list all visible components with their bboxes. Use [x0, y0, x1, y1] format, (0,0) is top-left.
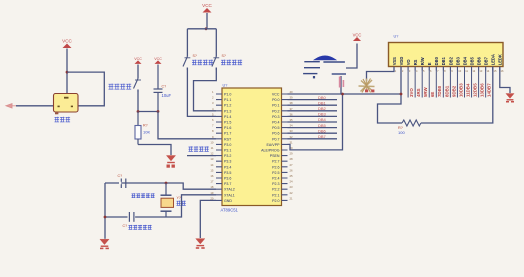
svg-text:23: 23 [290, 185, 294, 189]
svg-text:EA/VPP: EA/VPP [267, 143, 281, 147]
svg-text:LEDK: LEDK [498, 54, 503, 65]
svg-text:DB7: DB7 [484, 56, 489, 65]
svg-text:VDD: VDD [399, 57, 404, 66]
svg-text:10: 10 [458, 69, 461, 73]
svg-text:7: 7 [212, 124, 214, 128]
svg-text:VSS: VSS [392, 57, 397, 65]
svg-text:LEDA: LEDA [491, 54, 496, 65]
ground (backlight) [506, 94, 514, 100]
svg-text:17: 17 [210, 180, 214, 184]
svg-text:E: E [427, 62, 432, 65]
svg-text:10K: 10K [143, 130, 150, 135]
svg-text:VCC: VCC [134, 57, 142, 61]
svg-text:AT89C51: AT89C51 [221, 208, 239, 213]
svg-text:DB1: DB1 [318, 100, 327, 105]
svg-text:DB5: DB5 [318, 123, 327, 128]
svg-text:XTAL2: XTAL2 [224, 188, 235, 192]
svg-text:C?: C? [118, 174, 123, 178]
svg-text:GND: GND [224, 199, 232, 203]
svg-text:P2.6: P2.6 [272, 165, 279, 169]
svg-text:14: 14 [486, 69, 489, 73]
VCC symbol (reset cap) [154, 57, 162, 64]
svg-text:RST: RST [224, 137, 232, 141]
svg-text:21: 21 [290, 196, 294, 200]
VCC symbol (buzzer) [62, 39, 72, 48]
svg-text:9: 9 [451, 69, 453, 73]
svg-text:DB2: DB2 [318, 106, 327, 111]
junction [104, 216, 107, 219]
svg-text:7DB0: 7DB0 [437, 85, 442, 97]
wire [206, 13, 208, 29]
svg-text:5: 5 [423, 69, 425, 73]
resistor R1 [135, 112, 141, 145]
svg-text:P1.2: P1.2 [224, 104, 231, 108]
svg-text:P1.6: P1.6 [224, 126, 231, 130]
svg-text:P0.2: P0.2 [272, 109, 279, 113]
wire [16, 105, 53, 107]
svg-text:DB3: DB3 [318, 112, 327, 117]
MCU U2 89C51 [222, 88, 282, 206]
svg-text:VCC: VCC [353, 32, 362, 37]
svg-text:P1.3: P1.3 [224, 109, 231, 113]
svg-text:8: 8 [212, 129, 214, 133]
crystal Y1 [161, 183, 174, 217]
svg-text:29: 29 [290, 152, 294, 156]
wire gnd pin [200, 200, 216, 238]
wire P3.2 net [187, 155, 216, 157]
pink marks [339, 77, 344, 88]
svg-text:DB5: DB5 [469, 56, 474, 65]
port P1 (left arrow) [6, 104, 17, 108]
wire gnd left [104, 183, 106, 239]
label 复位开关 [109, 84, 132, 90]
switch S1 reset [134, 79, 142, 93]
svg-text:P2.2: P2.2 [272, 188, 279, 192]
VCC symbol (switches) [202, 3, 212, 12]
junction [400, 93, 403, 96]
svg-text:6: 6 [430, 69, 432, 73]
svg-text:P0.6: P0.6 [272, 132, 279, 136]
svg-text:1: 1 [212, 90, 214, 94]
svg-text:P3.6: P3.6 [224, 177, 231, 181]
junction [157, 110, 160, 113]
svg-text:P1.5: P1.5 [224, 121, 231, 125]
svg-text:9DB2: 9DB2 [451, 85, 456, 97]
svg-text:15: 15 [210, 168, 214, 172]
svg-text:P3.0: P3.0 [224, 143, 231, 147]
svg-text:16: 16 [501, 69, 504, 73]
svg-text:P2.7: P2.7 [272, 160, 279, 164]
wire S2 to P1.4 [187, 68, 216, 117]
svg-text:14: 14 [210, 163, 214, 167]
svg-text:27: 27 [290, 163, 294, 167]
svg-text:P3.2: P3.2 [224, 154, 231, 158]
svg-text:P2.3: P2.3 [272, 182, 279, 186]
chip pin stubs [216, 94, 288, 200]
svg-text:25: 25 [290, 174, 294, 178]
svg-text:10uF: 10uF [162, 93, 172, 98]
switch S3 [212, 57, 219, 71]
svg-text:U?: U? [394, 35, 399, 39]
wire EA loop [288, 94, 343, 150]
LCD U3 [389, 43, 504, 67]
svg-text:16: 16 [210, 174, 214, 178]
wire loop right [67, 72, 104, 106]
svg-text:4RS: 4RS [416, 88, 421, 97]
svg-text:6: 6 [212, 118, 214, 122]
label net [189, 146, 209, 151]
wire [187, 28, 216, 30]
svg-text:P0.1: P0.1 [272, 104, 279, 108]
ground (reset) [166, 156, 175, 163]
wire button to rail [340, 76, 342, 94]
svg-text:11DB4: 11DB4 [465, 83, 470, 97]
button dome [315, 56, 336, 60]
svg-text:VO: VO [406, 59, 411, 66]
svg-text:2: 2 [402, 69, 404, 73]
wire to gnd [138, 145, 171, 156]
VCC symbol (reset switch) [134, 57, 142, 64]
svg-text:P3.1: P3.1 [224, 149, 231, 153]
svg-text:1: 1 [395, 69, 397, 73]
svg-text:P1.0: P1.0 [224, 93, 231, 97]
wire xtal1 [166, 195, 216, 217]
svg-text:P3.3: P3.3 [224, 160, 231, 164]
svg-text:S?: S? [222, 54, 226, 58]
wire [215, 29, 217, 57]
LCD net wires [408, 67, 486, 98]
capacitor C2 [121, 179, 126, 189]
svg-text:12DB5: 12DB5 [472, 83, 477, 97]
svg-text:22: 22 [290, 191, 294, 195]
buzzer U1 [54, 94, 79, 113]
svg-text:DB0: DB0 [434, 56, 439, 65]
junction [341, 93, 344, 96]
svg-text:4: 4 [416, 69, 418, 73]
svg-text:P2.1: P2.1 [272, 193, 279, 197]
wire RST [158, 112, 216, 139]
svg-text:3: 3 [409, 69, 411, 73]
button terminals [303, 62, 346, 74]
label 蜂鸣器 [55, 117, 71, 122]
capacitor C3 [128, 212, 136, 222]
earth ground [359, 79, 375, 93]
wire VCC rail [288, 93, 402, 95]
svg-text:RS: RS [413, 59, 418, 65]
svg-text:ALE/PROG: ALE/PROG [261, 149, 280, 153]
P0 bus wires with net labels DB0-DB7 [288, 99, 338, 101]
svg-text:U?: U? [223, 84, 228, 88]
svg-text:PSEN: PSEN [270, 154, 280, 158]
svg-text:XTAL1: XTAL1 [224, 193, 235, 197]
junction [165, 182, 168, 185]
svg-text:P3.7: P3.7 [224, 182, 231, 186]
wire [137, 65, 139, 79]
resistor R2 zigzag [402, 120, 421, 126]
svg-text:24: 24 [290, 180, 294, 184]
svg-text:DB7: DB7 [318, 134, 327, 139]
wire to LEDA [421, 67, 493, 124]
svg-text:P3.4: P3.4 [224, 165, 231, 169]
svg-text:10DB3: 10DB3 [458, 83, 463, 97]
svg-text:8: 8 [444, 69, 446, 73]
svg-text:11: 11 [465, 69, 468, 73]
svg-text:P1.7: P1.7 [224, 132, 231, 136]
svg-text:13: 13 [479, 69, 482, 73]
wire VDD loop [378, 67, 403, 124]
wire [186, 29, 188, 57]
wire LEDK [500, 67, 510, 94]
switch S2 [183, 57, 190, 71]
svg-text:5RW: 5RW [423, 86, 428, 97]
svg-text:P0.7: P0.7 [272, 137, 279, 141]
LCD pin stubs [394, 67, 500, 71]
svg-text:11: 11 [211, 146, 214, 150]
svg-text:100: 100 [398, 130, 405, 135]
wire [346, 44, 357, 69]
wire VCC to buzzer top [66, 49, 68, 94]
svg-text:P3.5: P3.5 [224, 171, 231, 175]
wire S3 to P1.3 [194, 68, 217, 111]
wire xtal top rail [105, 183, 216, 189]
svg-text:13: 13 [210, 157, 214, 161]
svg-text:8DB1: 8DB1 [444, 85, 449, 97]
wire reset node [138, 111, 158, 113]
junction [205, 27, 208, 30]
svg-text:P1.4: P1.4 [224, 115, 231, 119]
wire VSS [367, 67, 395, 82]
svg-text:DB3: DB3 [455, 56, 460, 65]
svg-text:P0.3: P0.3 [272, 115, 279, 119]
svg-text:10: 10 [210, 140, 214, 144]
svg-text:S?: S? [193, 54, 197, 58]
svg-text:14DB7: 14DB7 [487, 83, 492, 97]
svg-text:26: 26 [290, 168, 294, 172]
svg-text:P0.4: P0.4 [272, 121, 279, 125]
svg-text:7: 7 [437, 69, 439, 73]
svg-text:2: 2 [212, 96, 214, 100]
svg-text:12: 12 [472, 69, 475, 73]
svg-text:3VO: 3VO [409, 88, 414, 97]
svg-text:C?: C? [123, 224, 128, 228]
svg-text:28: 28 [290, 157, 294, 161]
svg-text:DB4: DB4 [462, 56, 467, 65]
ground (MCU) [196, 239, 205, 246]
svg-text:VCC: VCC [62, 39, 72, 44]
svg-text:P2.5: P2.5 [272, 171, 279, 175]
svg-text:6E: 6E [430, 92, 435, 97]
svg-text:15: 15 [494, 69, 497, 73]
svg-text:C?: C? [162, 85, 167, 89]
junction [137, 110, 140, 113]
svg-text:VCC: VCC [202, 3, 212, 8]
svg-text:3: 3 [212, 101, 214, 105]
svg-text:P1.1: P1.1 [224, 98, 231, 102]
junction [66, 71, 69, 74]
svg-text:13DB6: 13DB6 [480, 83, 485, 97]
ground (xtal) [100, 239, 109, 246]
svg-text:DB6: DB6 [477, 56, 482, 65]
VCC symbol (button) [353, 32, 362, 41]
svg-text:P2.0: P2.0 [272, 199, 279, 203]
wire [137, 90, 139, 112]
svg-text:VCC: VCC [272, 93, 280, 97]
svg-text:R?: R? [143, 124, 148, 128]
svg-text:DB4: DB4 [318, 117, 327, 122]
svg-text:DB1: DB1 [441, 56, 446, 65]
svg-text:VCC: VCC [154, 57, 162, 61]
svg-text:R/W: R/W [420, 57, 425, 65]
svg-text:P2.4: P2.4 [272, 177, 279, 181]
capacitor C1 [154, 65, 163, 112]
svg-text:Y?: Y? [177, 196, 181, 200]
wire xtal bottom rail [105, 216, 166, 218]
buzzer U1 internals [58, 97, 74, 107]
svg-text:DB2: DB2 [448, 56, 453, 65]
svg-text:DB0: DB0 [318, 95, 327, 100]
svg-text:DB6: DB6 [318, 128, 327, 133]
svg-text:P0.0: P0.0 [272, 98, 279, 102]
svg-text:P0.5: P0.5 [272, 126, 279, 130]
